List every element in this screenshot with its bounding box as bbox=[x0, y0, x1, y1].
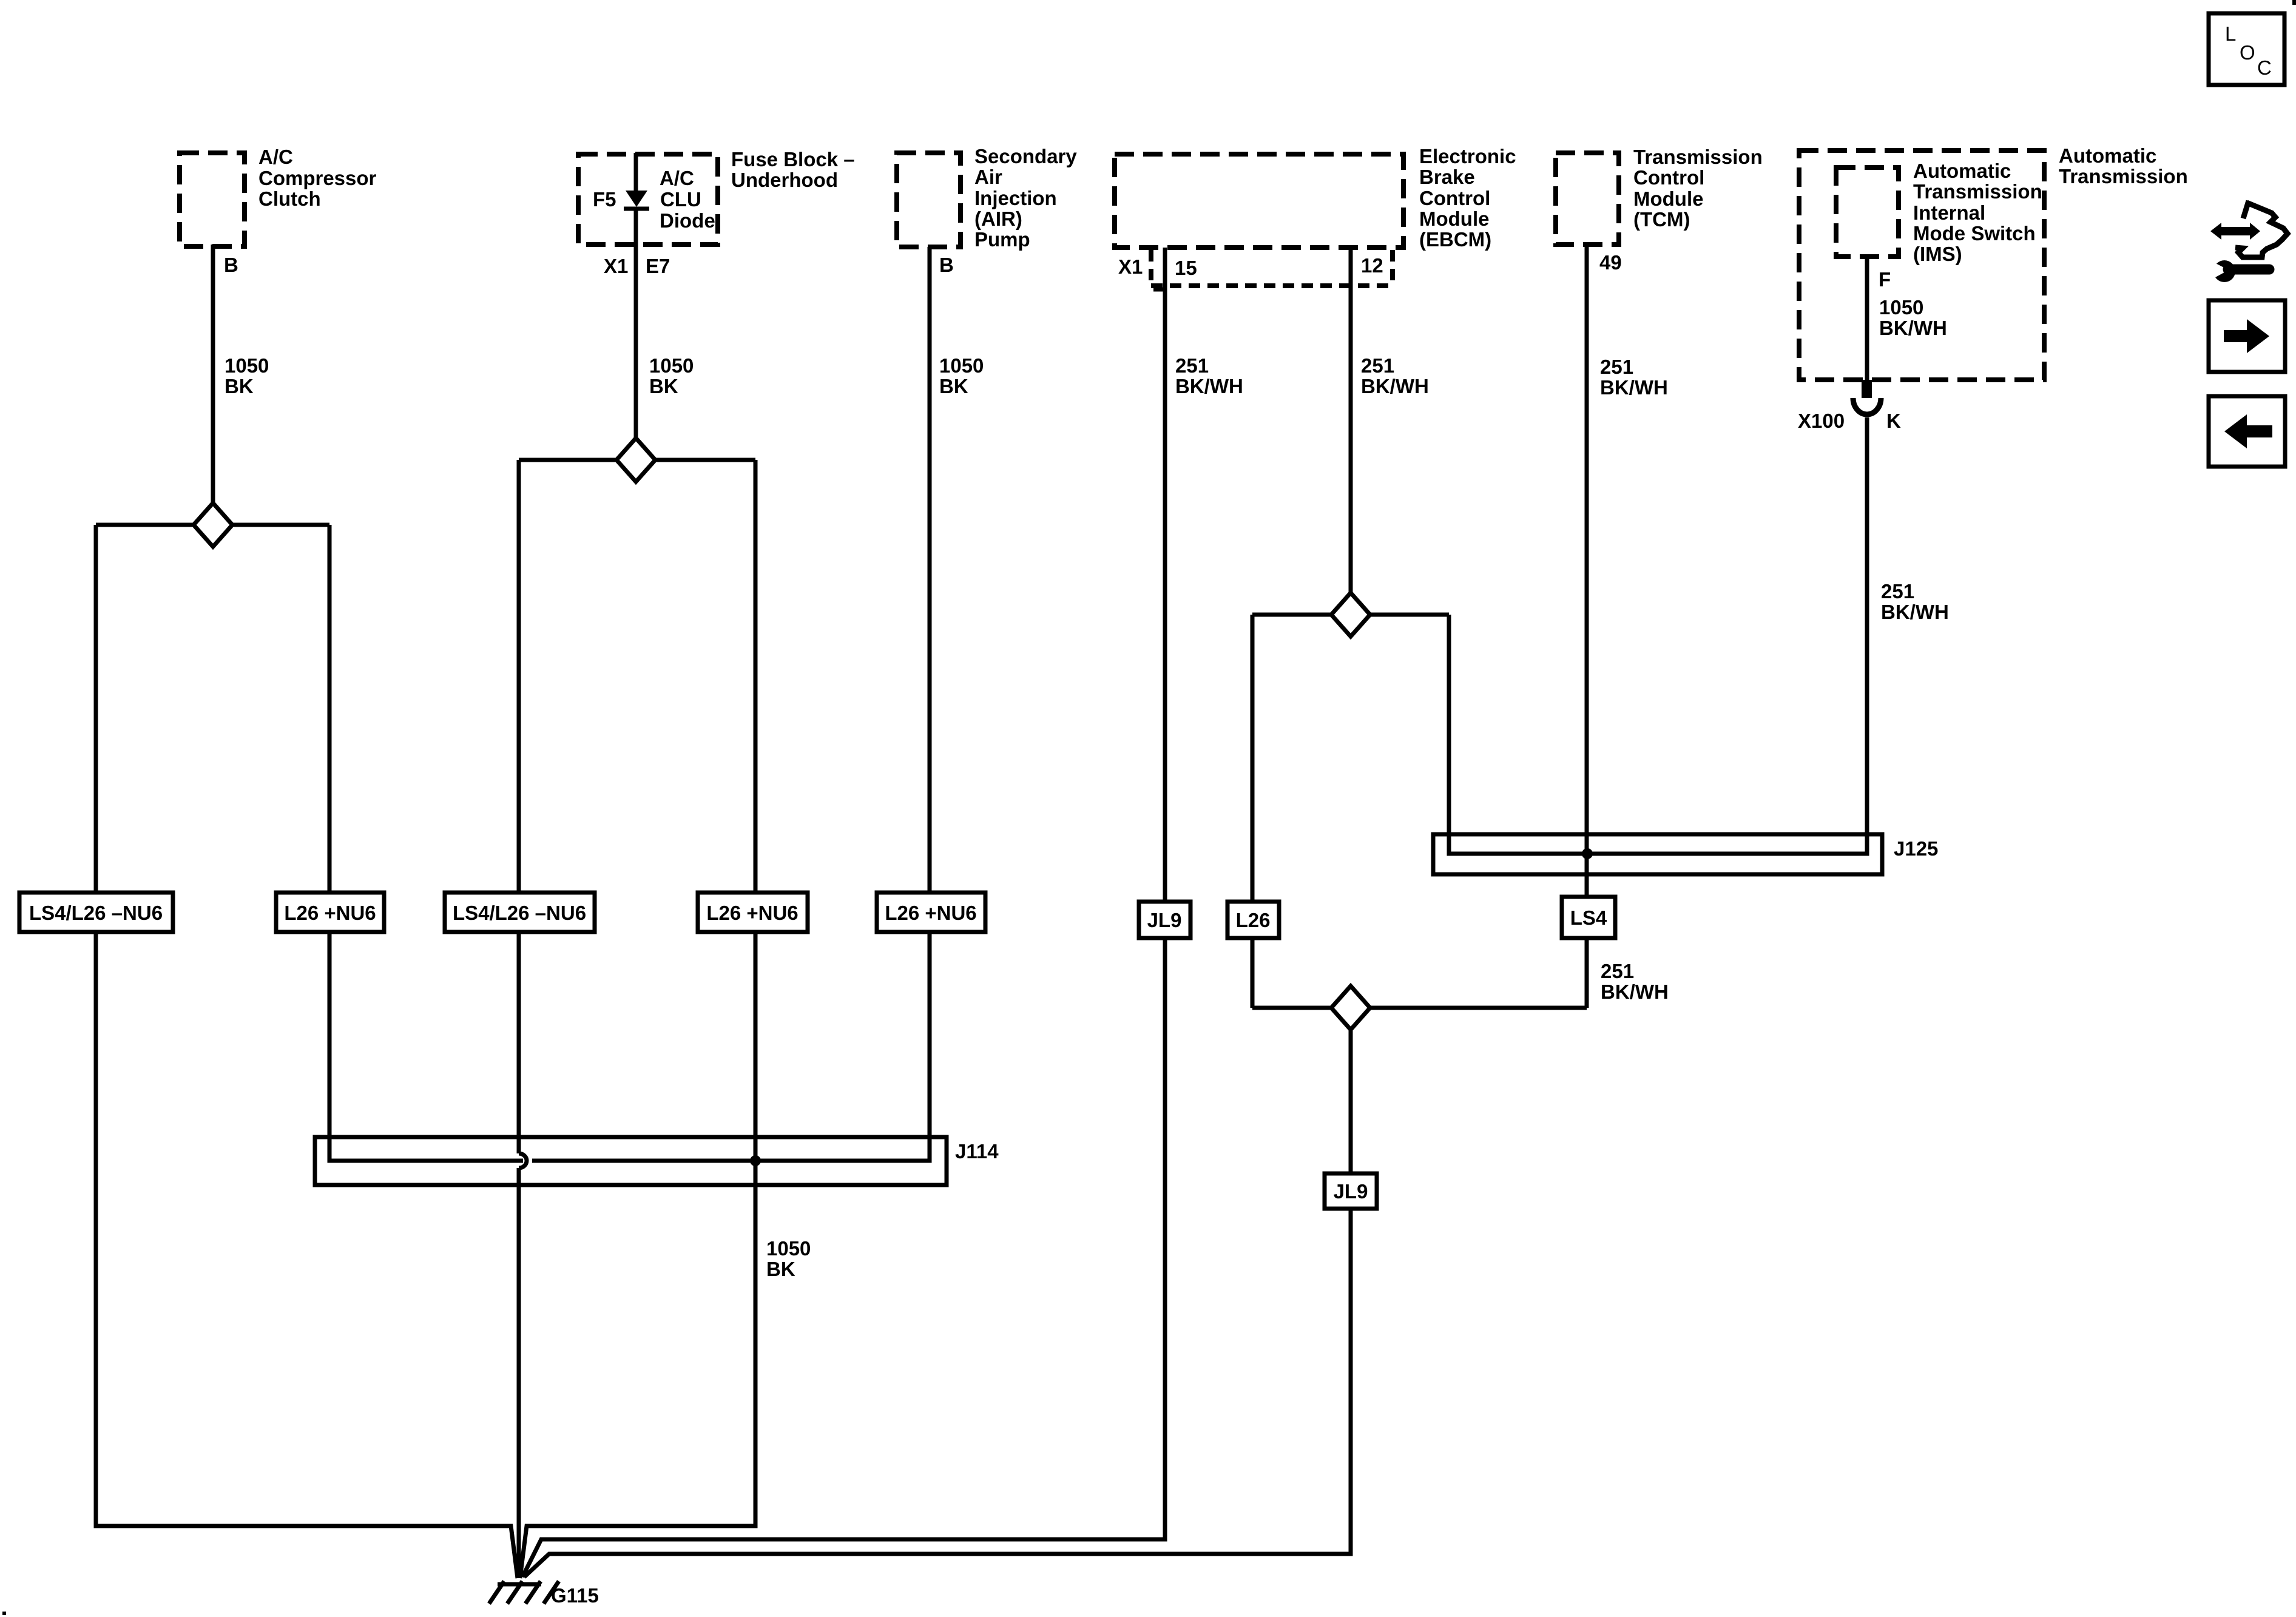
svg-text:BK/WH: BK/WH bbox=[1175, 375, 1243, 397]
svg-text:LS4/L26 –NU6: LS4/L26 –NU6 bbox=[29, 902, 163, 924]
svg-text:LS4: LS4 bbox=[1570, 906, 1607, 929]
svg-text:K: K bbox=[1886, 410, 1901, 432]
svg-text:Control: Control bbox=[1633, 166, 1704, 189]
svg-text:1050: 1050 bbox=[225, 354, 269, 377]
svg-text:Automatic: Automatic bbox=[1913, 160, 2011, 182]
svg-text:X100: X100 bbox=[1798, 410, 1845, 432]
svg-text:G115: G115 bbox=[551, 1584, 599, 1607]
svg-text:F5: F5 bbox=[593, 188, 616, 211]
svg-text:251: 251 bbox=[1601, 960, 1634, 982]
svg-text:Pump: Pump bbox=[974, 228, 1030, 251]
svg-text:Injection: Injection bbox=[974, 187, 1057, 209]
svg-text:(IMS): (IMS) bbox=[1913, 243, 1962, 265]
svg-text:Underhood: Underhood bbox=[731, 169, 838, 191]
svg-text:1050: 1050 bbox=[649, 354, 694, 377]
svg-text:L: L bbox=[2225, 22, 2236, 45]
svg-text:Mode Switch: Mode Switch bbox=[1913, 222, 2036, 245]
svg-text:E7: E7 bbox=[646, 255, 670, 277]
svg-text:15: 15 bbox=[1175, 257, 1197, 279]
svg-text:Transmission: Transmission bbox=[1913, 180, 2042, 203]
svg-text:1050: 1050 bbox=[1879, 296, 1923, 319]
svg-text:1050: 1050 bbox=[939, 354, 984, 377]
svg-text:BK/WH: BK/WH bbox=[1879, 317, 1947, 339]
svg-text:Internal: Internal bbox=[1913, 201, 1985, 224]
svg-text:12: 12 bbox=[1361, 254, 1383, 277]
svg-text:251: 251 bbox=[1175, 354, 1209, 377]
svg-text:251: 251 bbox=[1881, 580, 1914, 603]
svg-text:BK: BK bbox=[766, 1258, 795, 1280]
svg-text:X1: X1 bbox=[1118, 255, 1143, 278]
svg-text:(AIR): (AIR) bbox=[974, 208, 1022, 230]
svg-text:Electronic: Electronic bbox=[1419, 145, 1516, 167]
svg-text:BK/WH: BK/WH bbox=[1601, 981, 1669, 1003]
svg-text:Module: Module bbox=[1633, 187, 1703, 210]
svg-text:BK: BK bbox=[225, 375, 254, 397]
svg-text:C: C bbox=[2257, 56, 2272, 79]
svg-text:Diode: Diode bbox=[660, 209, 715, 232]
svg-text:JL9: JL9 bbox=[1147, 909, 1182, 931]
svg-text:Control: Control bbox=[1419, 187, 1490, 209]
svg-text:Secondary: Secondary bbox=[974, 145, 1077, 167]
svg-text:Compressor: Compressor bbox=[258, 167, 377, 189]
svg-text:BK/WH: BK/WH bbox=[1600, 376, 1668, 399]
svg-text:X1: X1 bbox=[604, 255, 628, 277]
svg-text:BK: BK bbox=[939, 375, 968, 397]
svg-text:Clutch: Clutch bbox=[258, 187, 321, 210]
svg-text:L26 +NU6: L26 +NU6 bbox=[284, 902, 376, 924]
svg-text:CLU: CLU bbox=[660, 188, 701, 211]
svg-text:Transmission: Transmission bbox=[2059, 165, 2188, 187]
svg-text:JL9: JL9 bbox=[1334, 1180, 1368, 1203]
svg-text:A/C: A/C bbox=[660, 167, 694, 189]
svg-text:L26 +NU6: L26 +NU6 bbox=[706, 902, 798, 924]
svg-text:Automatic: Automatic bbox=[2059, 144, 2156, 167]
svg-text:49: 49 bbox=[1599, 251, 1622, 274]
svg-text:B: B bbox=[939, 254, 954, 276]
svg-text:BK: BK bbox=[649, 375, 678, 397]
svg-text:251: 251 bbox=[1361, 354, 1394, 377]
svg-text:BK/WH: BK/WH bbox=[1361, 375, 1429, 397]
svg-text:Transmission: Transmission bbox=[1633, 146, 1763, 168]
svg-text:Air: Air bbox=[974, 166, 1002, 188]
svg-text:Brake: Brake bbox=[1419, 166, 1475, 188]
svg-text:J125: J125 bbox=[1894, 837, 1938, 860]
svg-text:B: B bbox=[224, 254, 238, 276]
svg-text:O: O bbox=[2240, 41, 2255, 64]
svg-text:LS4/L26 –NU6: LS4/L26 –NU6 bbox=[453, 902, 586, 924]
svg-text:Fuse Block –: Fuse Block – bbox=[731, 148, 855, 170]
svg-text:Module: Module bbox=[1419, 208, 1489, 230]
svg-text:J114: J114 bbox=[955, 1140, 999, 1163]
svg-text:A/C: A/C bbox=[258, 146, 293, 168]
svg-text:(TCM): (TCM) bbox=[1633, 208, 1690, 231]
svg-text:BK/WH: BK/WH bbox=[1881, 601, 1949, 623]
svg-text:1050: 1050 bbox=[766, 1237, 811, 1260]
svg-text:251: 251 bbox=[1600, 356, 1633, 378]
svg-text:F: F bbox=[1879, 268, 1891, 291]
svg-text:L26: L26 bbox=[1236, 909, 1271, 931]
svg-text:L26 +NU6: L26 +NU6 bbox=[885, 902, 976, 924]
svg-text:(EBCM): (EBCM) bbox=[1419, 228, 1491, 251]
